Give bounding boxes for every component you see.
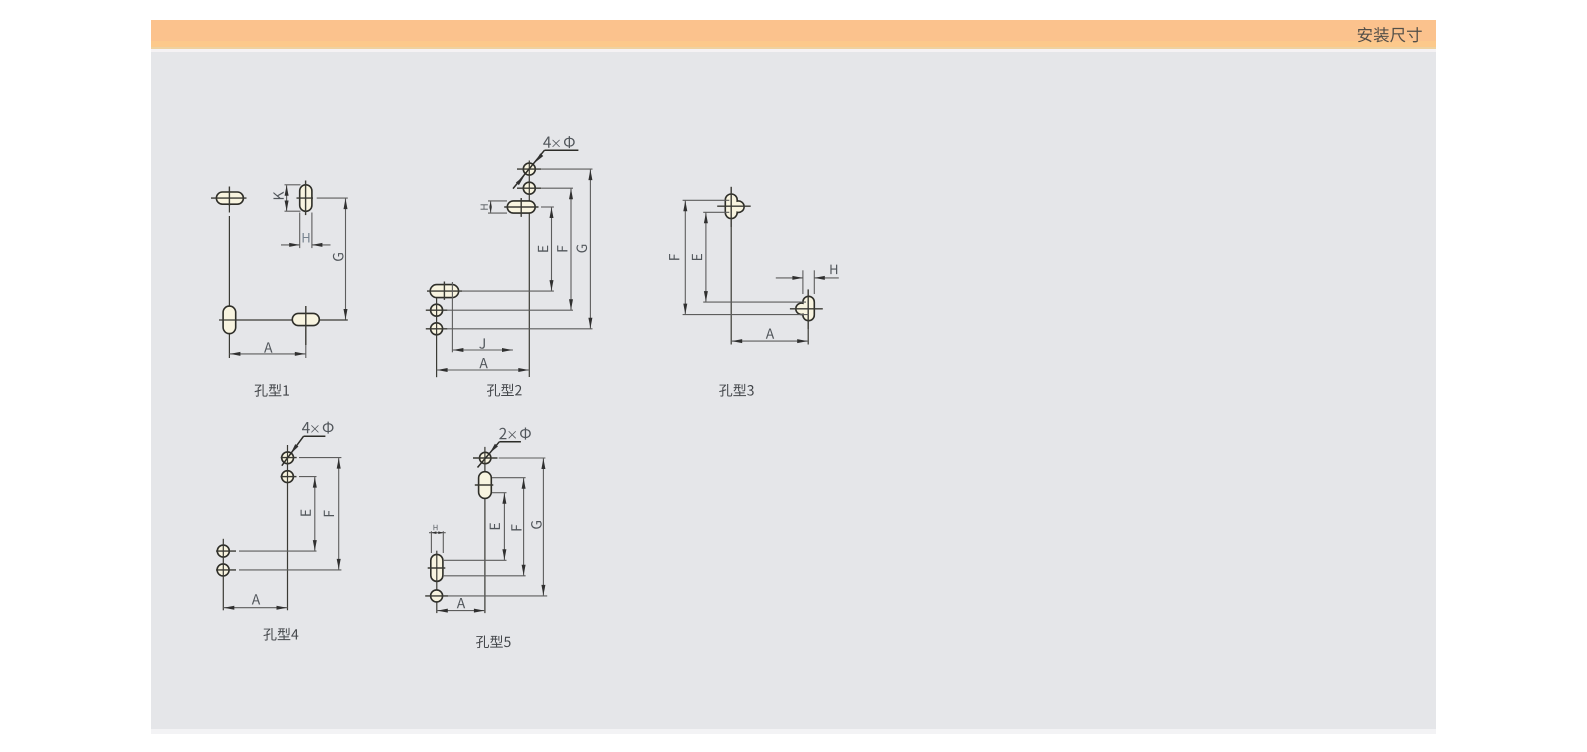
fig2 ext slot U1 to E xyxy=(462,290,554,292)
fig3 dim F line xyxy=(683,200,687,314)
fig3 label A xyxy=(766,329,774,339)
fig2 ext T1 to G xyxy=(541,168,592,170)
fig3 ext top lower-arc to E xyxy=(703,211,729,213)
fig2 label J xyxy=(479,338,485,348)
fig1 dim H line xyxy=(281,243,331,247)
fig2 leader xyxy=(513,150,578,188)
orange bar bottom edge xyxy=(151,47,1436,49)
fig5 caption 孔型5 xyxy=(476,635,511,648)
fig5 label A xyxy=(457,598,465,608)
fig3 label H xyxy=(830,265,837,275)
fig4 label F xyxy=(324,510,334,516)
fig2 label A xyxy=(479,358,487,368)
fig5 slot B1 vertical xyxy=(431,554,443,581)
fig4 circle B1 crosshair xyxy=(216,550,236,552)
fig2 dim J line xyxy=(452,348,513,352)
fig5 dim F line xyxy=(522,478,526,576)
fig1 slot bottom-right horizontal xyxy=(292,313,319,325)
fig1 dim G top extension xyxy=(317,197,348,199)
fig1 caption 孔型1 xyxy=(255,384,289,397)
fig2 dim G line xyxy=(588,169,592,329)
fig1 label H xyxy=(303,233,310,243)
fig3 bottom centerline down xyxy=(807,329,809,345)
fig5 circle B2 crosshair xyxy=(425,595,448,597)
orange header bar xyxy=(151,20,1436,41)
fig4 caption 孔型4 xyxy=(263,628,298,641)
fig2 slot T3 crosshair xyxy=(504,198,538,217)
fig5 ext B1 upper-arc to E xyxy=(443,559,507,561)
fig3 ext bottom upper-arc to E xyxy=(703,301,806,303)
fig2 circle T2 xyxy=(523,182,535,194)
fig2 text 4xPhi xyxy=(543,136,575,148)
fig3 ext top upper-arc to F xyxy=(683,199,730,201)
fig3 bottom keyhole xyxy=(796,296,814,320)
fig4 ext T2 to E xyxy=(299,476,317,478)
fig1 slot bottom-left vertical xyxy=(223,306,236,334)
fig1 dim H extension lines xyxy=(300,213,312,249)
fig2 left centerline xyxy=(436,298,438,377)
fig5 label E xyxy=(490,523,500,529)
fig3 dim H line xyxy=(776,276,839,280)
fig3 caption 孔型3 xyxy=(719,384,754,397)
fig2 ext T3 to E xyxy=(541,206,554,208)
fig1 dim K extension lines xyxy=(285,185,301,211)
fig2 label H xyxy=(481,204,488,209)
fig1 slot top-left horizontal xyxy=(216,192,243,204)
fig5 ext T2 upper-arc to F xyxy=(492,477,526,479)
fig1 left centerline xyxy=(228,206,230,358)
fig1 slot top-right crosshair xyxy=(297,181,314,216)
fig3 dim E line xyxy=(704,212,708,302)
panel bottom light strip xyxy=(151,729,1436,734)
fig2 circle U2 crosshair xyxy=(426,309,448,311)
fig2 label F xyxy=(557,246,567,252)
fig2 dim H line xyxy=(489,201,492,213)
fig5 circle T1 xyxy=(480,452,491,463)
fig4 circle B2 crosshair xyxy=(216,569,236,571)
fig5 slot T2 crosshair xyxy=(475,484,494,486)
header separator xyxy=(151,49,1436,52)
fig5 dim G line xyxy=(541,458,545,596)
fig2 label E xyxy=(538,246,548,252)
fig1 slot top-left crosshair xyxy=(211,187,247,207)
fig3 top centerline down xyxy=(730,227,732,345)
fig2 slot U1 crosshair xyxy=(427,282,462,300)
fig1 dim A line xyxy=(229,352,305,356)
fig2 ext T2 to F xyxy=(541,187,573,189)
fig1 dim K line xyxy=(285,185,289,211)
fig1 slot top-right vertical xyxy=(300,185,312,212)
orange bar lower strip xyxy=(151,41,1436,47)
header title 安装尺寸 xyxy=(1358,27,1422,42)
fig2 dim E line xyxy=(550,207,554,291)
fig2 slot U1 horizontal xyxy=(430,285,458,298)
fig4 circle T1 crosshair xyxy=(281,457,297,459)
fig4 ext B1 to E xyxy=(239,550,317,552)
fig4 ext T1 to F xyxy=(299,457,341,459)
fig5 slot B1 crosshair xyxy=(428,551,446,613)
fig1 dim G line xyxy=(344,198,348,320)
fig2 circle U3 xyxy=(431,323,443,335)
fig2 slot T3 horizontal xyxy=(507,201,535,213)
fig2 dim H extensions xyxy=(488,201,507,213)
fig4 circle B2 xyxy=(217,564,229,576)
fig3 top keyhole xyxy=(725,194,744,219)
fig5 label F xyxy=(511,525,521,531)
fig4 label A xyxy=(252,594,260,604)
fig5 slot T2 vertical xyxy=(479,472,492,499)
fig5 column centerline xyxy=(484,447,486,613)
fig5 ext B2 to G xyxy=(448,595,547,597)
fig4 circle T1 xyxy=(282,452,294,464)
fig5 label G xyxy=(531,521,542,529)
fig4 dim F line xyxy=(337,458,341,570)
fig4 dim E line xyxy=(313,477,317,551)
fig2 caption 孔型2 xyxy=(487,384,522,397)
fig5 ext T1 to G xyxy=(499,457,546,459)
fig5 circle B2 xyxy=(431,590,443,602)
fig2 circle U2 xyxy=(431,304,443,316)
fig5 circle T1 crosshair xyxy=(473,457,498,459)
fig3 label F xyxy=(669,254,679,260)
fig4 circle T2 crosshair xyxy=(281,476,297,478)
fig5 dim H extensions xyxy=(431,531,443,553)
fig2 circle U3 crosshair xyxy=(426,328,448,330)
fig1 label A xyxy=(264,342,272,352)
fig5 leader xyxy=(478,442,521,468)
fig1 label K xyxy=(273,192,283,200)
fig5 text 2xPhi xyxy=(499,428,531,440)
fig2 ext U3 to G xyxy=(447,328,592,330)
fig5 ext T2 lower-arc to E xyxy=(492,492,507,494)
fig5 label H xyxy=(434,525,438,530)
fig2 dim F line xyxy=(569,188,573,310)
fig1 bottom centerline horizontal xyxy=(219,319,348,321)
fig3 top crosshair xyxy=(717,187,751,227)
fig3 dim H extensions xyxy=(803,270,814,294)
fig5 ext B1 lower-arc to F xyxy=(443,575,526,577)
fig2 column centerline xyxy=(528,161,530,378)
fig3 bottom crosshair xyxy=(790,289,823,329)
fig2 circle T1 crosshair xyxy=(517,168,541,170)
fig5 dim A line xyxy=(437,609,485,613)
fig2 circle T2 crosshair xyxy=(517,187,541,189)
gray content panel xyxy=(151,52,1436,729)
fig4 label E xyxy=(301,510,311,516)
fig2 ext U2 to F xyxy=(447,309,573,311)
fig4 left centerline xyxy=(222,539,224,611)
fig4 circle T2 xyxy=(282,471,294,483)
fig4 circle B1 xyxy=(217,545,229,557)
fig5 dim E line xyxy=(502,493,506,561)
fig4 column centerline xyxy=(287,445,289,610)
fig3 ext bottom lower-arc to F xyxy=(683,314,809,316)
fig3 label E xyxy=(692,254,702,260)
fig2 label G xyxy=(576,245,587,253)
fig2 dim A line xyxy=(437,368,530,372)
fig1 label G xyxy=(333,253,344,261)
fig4 leader xyxy=(282,436,326,466)
fig4 dim A line xyxy=(223,606,287,610)
fig2 circle T1 xyxy=(523,163,535,175)
fig1 dim A right extension xyxy=(305,345,307,358)
fig1 slot bottom-right crosshair xyxy=(305,306,307,345)
fig4 ext B2 to F xyxy=(239,569,341,571)
fig4 text 4xPhi xyxy=(302,422,334,434)
fig3 dim A line xyxy=(731,339,808,343)
fig5 dim H line xyxy=(429,531,446,534)
fig2 J left extension xyxy=(451,282,453,352)
